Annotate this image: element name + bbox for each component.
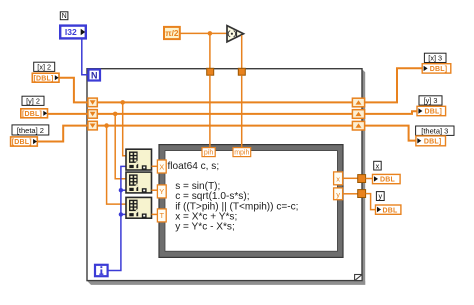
svg-text:[DBL]: [DBL] — [12, 139, 32, 146]
wire tunnel to x indicator — [366, 178, 373, 180]
svg-text:[DBL]: [DBL] — [22, 111, 42, 118]
control N I32 terminal — [60, 26, 86, 39]
wire node3 to T — [152, 213, 158, 215]
wire pih drop inside loop — [209, 75, 211, 148]
wire tunnel to [theta]3 — [365, 126, 416, 141]
formula input Y — [157, 185, 166, 198]
index array node 3 — [126, 197, 152, 218]
negate function — [227, 26, 244, 42]
svg-text:y: y — [378, 192, 382, 201]
svg-text:x: x — [376, 161, 380, 170]
svg-text:[y] 2: [y] 2 — [26, 96, 40, 105]
svg-text:X: X — [159, 162, 164, 171]
wire x array across loop — [97, 101, 352, 103]
wire i stub 2 — [121, 189, 126, 191]
junction i to index array 2 — [119, 188, 123, 192]
svg-text:DBL]: DBL] — [425, 109, 443, 116]
N count terminal — [88, 70, 100, 81]
wire N blue — [82, 39, 88, 75]
svg-text:[x] 3: [x] 3 — [428, 54, 442, 63]
formula input X — [157, 160, 166, 173]
junction pi/2 — [208, 31, 213, 36]
svg-text:Y: Y — [159, 187, 164, 196]
formula node border — [159, 145, 343, 258]
svg-text:T: T — [160, 211, 165, 220]
tunnel x out — [358, 175, 366, 183]
wire node2 to Y — [152, 189, 158, 191]
indicator x label — [374, 161, 382, 170]
formula output x — [334, 172, 343, 185]
svg-text:x: x — [336, 175, 340, 184]
wire formula y to tunnel — [343, 193, 358, 195]
wire node1 to X — [152, 165, 158, 167]
control [theta] 2 label — [12, 125, 49, 135]
svg-text:DBL: DBL — [380, 177, 396, 184]
control [x] 2 DBL terminal — [32, 73, 59, 82]
wire tunnel to [x]3 — [365, 68, 423, 102]
tunnel right 3 — [352, 121, 364, 130]
for loop shadow right — [362, 70, 365, 285]
wire tunnel to y indicator — [366, 194, 376, 210]
tunnel pih — [207, 68, 214, 75]
indicator x DBL — [373, 174, 401, 183]
tunnel right 1 — [352, 98, 364, 107]
svg-text:[theta] 3: [theta] 3 — [421, 126, 448, 135]
junction on wire y — [113, 112, 118, 117]
tunnel left 2 — [88, 110, 97, 119]
indicator y label — [376, 192, 384, 201]
indicator y DBL — [376, 205, 401, 214]
wire i blue — [108, 166, 126, 270]
wire [x]2 to tunnel — [59, 78, 88, 103]
wire tunnel to [y]3 — [365, 111, 417, 114]
wire pi/2 to negate — [180, 32, 227, 34]
wire pih drop above loop — [209, 33, 211, 68]
for loop shadow bottom — [87, 281, 365, 285]
svg-text:DBL]: DBL] — [430, 66, 448, 73]
svg-text:[x] 2: [x] 2 — [37, 62, 51, 71]
formula input pih — [202, 148, 215, 157]
wire mpih drop above loop — [241, 35, 243, 68]
formula input T — [157, 209, 166, 222]
svg-text:pih: pih — [204, 150, 213, 157]
svg-text:I32: I32 — [65, 27, 77, 37]
tunnel left 3 — [88, 121, 97, 130]
control [y] 2 DBL terminal — [21, 109, 48, 118]
wire [theta]2 to tunnel — [37, 126, 88, 142]
wire drop to index array 3 — [107, 126, 126, 205]
svg-text:y: y — [336, 190, 340, 199]
formula node code text — [168, 161, 299, 233]
junction i to index array 3 — [119, 212, 123, 216]
svg-text:[theta] 2: [theta] 2 — [17, 126, 44, 135]
svg-text:π/2: π/2 — [165, 28, 179, 38]
indicator [y] 3 label — [419, 96, 442, 105]
constant pi/2 — [164, 27, 180, 39]
tunnel y out — [358, 190, 366, 198]
indicator [y] 3 DBL — [417, 106, 446, 115]
wire drop to index array 1 — [123, 102, 126, 155]
wire mpih drop inside loop — [241, 75, 243, 148]
svg-text:N: N — [91, 71, 98, 81]
wire theta array across loop — [97, 125, 352, 127]
svg-text:float64 c, s;: float64 c, s; — [168, 161, 220, 172]
index array node 2 — [126, 172, 152, 193]
svg-text:[DBL]: [DBL] — [33, 75, 53, 82]
svg-text:DBL: DBL — [383, 207, 399, 214]
wire i stub 3 — [121, 213, 126, 215]
junction on wire theta — [104, 123, 109, 128]
formula input mpih — [233, 148, 251, 157]
indicator [x] 3 label — [424, 53, 446, 62]
tunnel mpih — [238, 68, 245, 75]
svg-text:DBL]: DBL] — [424, 139, 442, 146]
control N label — [60, 12, 68, 20]
svg-text:y = Y*c - X*s;: y = Y*c - X*s; — [175, 222, 235, 233]
formula output y — [334, 188, 343, 200]
svg-text:[y] 3: [y] 3 — [424, 96, 438, 105]
iteration terminal i — [95, 265, 108, 276]
tunnel left 1 — [88, 98, 97, 107]
svg-text:N: N — [62, 13, 67, 20]
index array node 1 — [126, 149, 152, 170]
wire [y]2 to tunnel — [48, 113, 88, 115]
indicator [theta] 3 label — [416, 126, 454, 135]
for loop border — [87, 69, 362, 281]
wire y array across loop — [97, 113, 352, 115]
indicator [theta] 3 DBL — [416, 136, 446, 146]
wire formula x to tunnel — [343, 177, 358, 179]
indicator [x] 3 DBL — [422, 64, 451, 73]
svg-text:mpih: mpih — [234, 150, 249, 157]
control [theta] 2 DBL terminal — [11, 137, 38, 146]
loop resize grip — [355, 275, 362, 281]
wire drop to index array 2 — [115, 114, 126, 179]
tunnel right 2 — [352, 110, 364, 119]
control [y] 2 label — [22, 96, 44, 105]
control [x] 2 label — [34, 62, 55, 71]
junction on wire x — [120, 100, 125, 105]
